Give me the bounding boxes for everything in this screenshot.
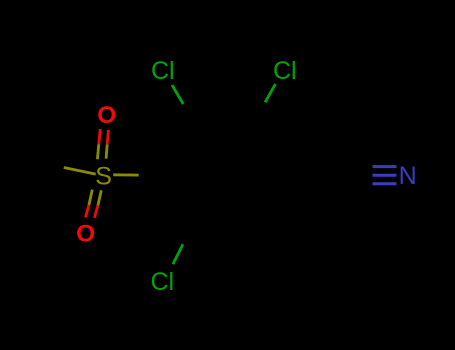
double bond S=O upper, right line: S half (olive) — [106, 144, 107, 158]
triple bond C#N, line 1 (blue, N half) — [373, 165, 397, 168]
double bond S=O lower, right line: S half (olive) — [98, 190, 101, 205]
double bond S=O upper, left line: O half (red) — [99, 129, 100, 144]
svg-text:S: S — [95, 162, 112, 190]
triple bond C#N, line 3 (blue, N half) — [373, 182, 397, 185]
double bond S=O lower, right line: O half (red) — [94, 205, 98, 217]
double bond S=O upper, right line: O half (red) — [107, 130, 108, 144]
double bond S=O lower, left line: O half (red) — [86, 205, 89, 217]
svg-text:Cl: Cl — [273, 57, 297, 85]
svg-text:N: N — [399, 162, 417, 190]
svg-text:Cl: Cl — [151, 57, 175, 85]
svg-text:O: O — [76, 220, 95, 247]
bond S-C4 half (olive, to ring at right) — [113, 173, 139, 176]
svg-text:O: O — [97, 102, 116, 129]
bond S-CH3 half (olive, to methyl at left) — [64, 168, 96, 175]
bond C2-Cl half (green) — [265, 84, 275, 102]
double bond S=O lower, left line: S half (olive) — [89, 190, 92, 205]
bond C5-Cl half (green) — [173, 244, 183, 264]
double bond S=O upper, left line: S half (olive) — [97, 144, 98, 159]
triple bond C#N, line 2 (blue, N half) — [373, 174, 397, 177]
bond C3-Cl half (green) — [172, 85, 183, 104]
svg-text:Cl: Cl — [151, 268, 175, 296]
